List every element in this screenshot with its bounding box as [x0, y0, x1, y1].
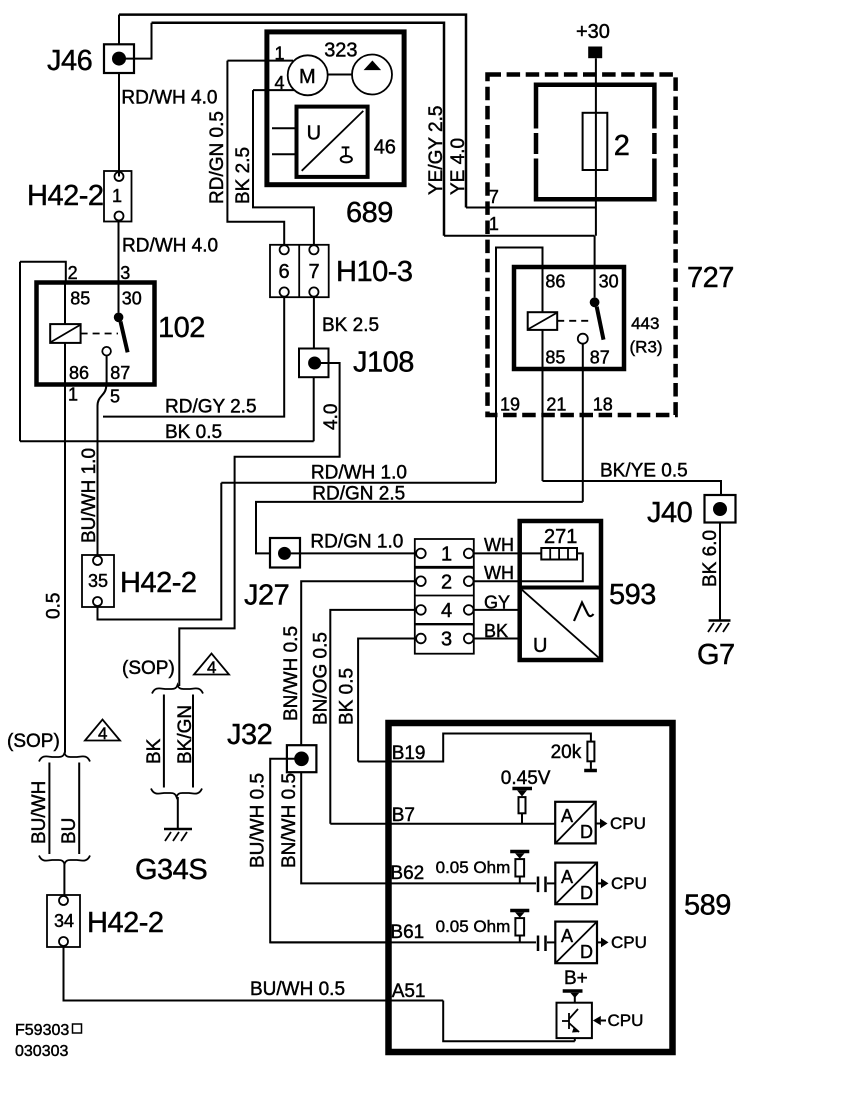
svg-text:BU/WH 0.5: BU/WH 0.5: [248, 773, 269, 868]
svg-text:102: 102: [158, 312, 205, 344]
svg-text:1: 1: [441, 544, 452, 566]
svg-text:B62: B62: [390, 863, 424, 884]
svg-text:BK/YE 0.5: BK/YE 0.5: [600, 461, 688, 482]
svg-text:YE 4.0: YE 4.0: [448, 138, 469, 195]
svg-text:323: 323: [324, 39, 357, 61]
svg-text:4: 4: [441, 600, 452, 622]
svg-text:593: 593: [609, 579, 656, 611]
svg-text:BK 0.5: BK 0.5: [337, 668, 358, 725]
svg-text:4: 4: [98, 724, 107, 743]
svg-text:D: D: [580, 942, 593, 962]
svg-text:BK 0.5: BK 0.5: [165, 422, 222, 443]
svg-text:RD/WH 4.0: RD/WH 4.0: [121, 88, 217, 109]
svg-text:20k: 20k: [551, 742, 582, 763]
svg-text:85: 85: [545, 347, 565, 367]
svg-text:J108: J108: [353, 347, 414, 379]
svg-text:J40: J40: [647, 497, 692, 529]
svg-text:CPU: CPU: [608, 1011, 644, 1030]
svg-text:87: 87: [110, 363, 130, 383]
svg-text:BU: BU: [59, 818, 80, 844]
svg-text:87: 87: [590, 347, 610, 367]
svg-text:H42-2: H42-2: [27, 180, 104, 212]
svg-text:YE/GY 2.5: YE/GY 2.5: [426, 106, 447, 195]
svg-text:(SOP): (SOP): [7, 731, 60, 752]
svg-text:WH: WH: [484, 563, 514, 583]
svg-text:2: 2: [441, 572, 452, 594]
svg-text:(R3): (R3): [630, 338, 663, 357]
svg-text:443: 443: [631, 314, 659, 333]
svg-text:BU/WH 1.0: BU/WH 1.0: [79, 448, 100, 543]
svg-text:30: 30: [122, 289, 142, 309]
svg-text:CPU: CPU: [611, 874, 647, 893]
svg-text:B61: B61: [390, 922, 424, 943]
svg-text:A: A: [561, 867, 573, 887]
svg-text:BK 2.5: BK 2.5: [233, 147, 254, 204]
svg-text:J27: J27: [244, 580, 289, 612]
svg-text:BU/WH 0.5: BU/WH 0.5: [250, 979, 345, 1000]
svg-text:U: U: [533, 635, 547, 657]
svg-text:4.0: 4.0: [321, 404, 342, 430]
svg-text:BN/WH 0.5: BN/WH 0.5: [279, 773, 300, 868]
svg-text:34: 34: [54, 911, 74, 931]
svg-text:A: A: [561, 926, 573, 946]
svg-text:(SOP): (SOP): [122, 658, 175, 679]
svg-text:B+: B+: [564, 968, 588, 989]
svg-text:1: 1: [489, 214, 499, 234]
svg-text:RD/GY 2.5: RD/GY 2.5: [165, 397, 257, 418]
svg-text:46: 46: [374, 137, 396, 159]
svg-text:30: 30: [599, 272, 619, 292]
svg-text:F59303: F59303: [15, 1022, 69, 1039]
svg-text:7: 7: [309, 261, 320, 283]
svg-text:+30: +30: [576, 21, 610, 43]
svg-text:RD/WH 1.0: RD/WH 1.0: [311, 463, 407, 484]
svg-text:A: A: [561, 806, 573, 826]
svg-text:85: 85: [70, 289, 90, 309]
svg-text:689: 689: [346, 197, 393, 229]
svg-text:RD/WH 4.0: RD/WH 4.0: [122, 236, 218, 257]
svg-text:0.05 Ohm: 0.05 Ohm: [436, 858, 511, 877]
svg-text:18: 18: [593, 395, 613, 415]
svg-text:D: D: [580, 822, 593, 842]
svg-text:21: 21: [546, 395, 566, 415]
svg-text:WH: WH: [484, 535, 514, 555]
svg-text:86: 86: [545, 272, 565, 292]
svg-text:271: 271: [544, 526, 577, 548]
svg-text:D: D: [580, 883, 593, 903]
svg-text:5: 5: [110, 387, 120, 407]
svg-text:2: 2: [68, 263, 78, 283]
svg-text:727: 727: [687, 262, 734, 294]
svg-text:G7: G7: [697, 639, 735, 671]
svg-text:0.45V: 0.45V: [501, 768, 551, 789]
svg-text:BN/OG 0.5: BN/OG 0.5: [311, 632, 332, 725]
svg-text:7: 7: [489, 187, 499, 207]
svg-text:589: 589: [684, 890, 731, 922]
svg-text:86: 86: [69, 363, 89, 383]
svg-text:1: 1: [112, 186, 122, 206]
svg-text:0.5: 0.5: [44, 593, 65, 619]
svg-text:1: 1: [68, 385, 78, 405]
svg-text:J32: J32: [227, 719, 272, 751]
svg-text:3: 3: [441, 629, 452, 651]
svg-text:19: 19: [500, 395, 520, 415]
svg-text:H42-2: H42-2: [87, 907, 164, 939]
svg-text:H42-2: H42-2: [120, 567, 197, 599]
svg-text:RD/GN 0.5: RD/GN 0.5: [207, 111, 228, 204]
svg-text:2: 2: [614, 130, 630, 162]
svg-text:3: 3: [120, 263, 130, 283]
svg-text:BK 2.5: BK 2.5: [322, 315, 379, 336]
svg-text:BK 6.0: BK 6.0: [700, 530, 721, 587]
svg-text:BN/WH 0.5: BN/WH 0.5: [281, 626, 302, 721]
svg-text:M: M: [299, 66, 316, 88]
svg-text:0.05 Ohm: 0.05 Ohm: [436, 917, 511, 936]
svg-text:G34S: G34S: [135, 854, 207, 886]
svg-text:BK/GN: BK/GN: [175, 705, 196, 764]
svg-text:35: 35: [88, 571, 108, 591]
svg-text:A51: A51: [392, 981, 426, 1002]
svg-text:RD/GN 1.0: RD/GN 1.0: [310, 532, 403, 553]
svg-text:RD/GN 2.5: RD/GN 2.5: [312, 484, 405, 505]
svg-text:U: U: [307, 123, 321, 145]
svg-text:CPU: CPU: [610, 814, 646, 833]
svg-text:BK: BK: [144, 738, 165, 764]
svg-text:4: 4: [207, 658, 216, 677]
svg-text:J46: J46: [47, 45, 92, 77]
svg-text:H10-3: H10-3: [336, 256, 413, 288]
svg-text:BU/WH: BU/WH: [29, 781, 50, 844]
svg-text:CPU: CPU: [611, 933, 647, 952]
svg-text:030303: 030303: [15, 1043, 68, 1060]
svg-text:6: 6: [279, 261, 290, 283]
